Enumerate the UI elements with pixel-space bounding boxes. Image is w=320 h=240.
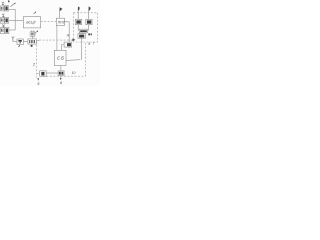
svg-text:7: 7 — [93, 42, 95, 46]
svg-text:ППУ: ППУ — [58, 21, 66, 25]
svg-text:5: 5 — [37, 81, 40, 86]
svg-text:10: 10 — [72, 71, 76, 75]
svg-text:9: 9 — [88, 42, 90, 46]
svg-text:6: 6 — [60, 80, 63, 85]
svg-text:2: 2 — [32, 62, 36, 67]
svg-text:БСЦУ: БСЦУ — [26, 21, 36, 25]
svg-text:СБ: СБ — [57, 56, 65, 61]
